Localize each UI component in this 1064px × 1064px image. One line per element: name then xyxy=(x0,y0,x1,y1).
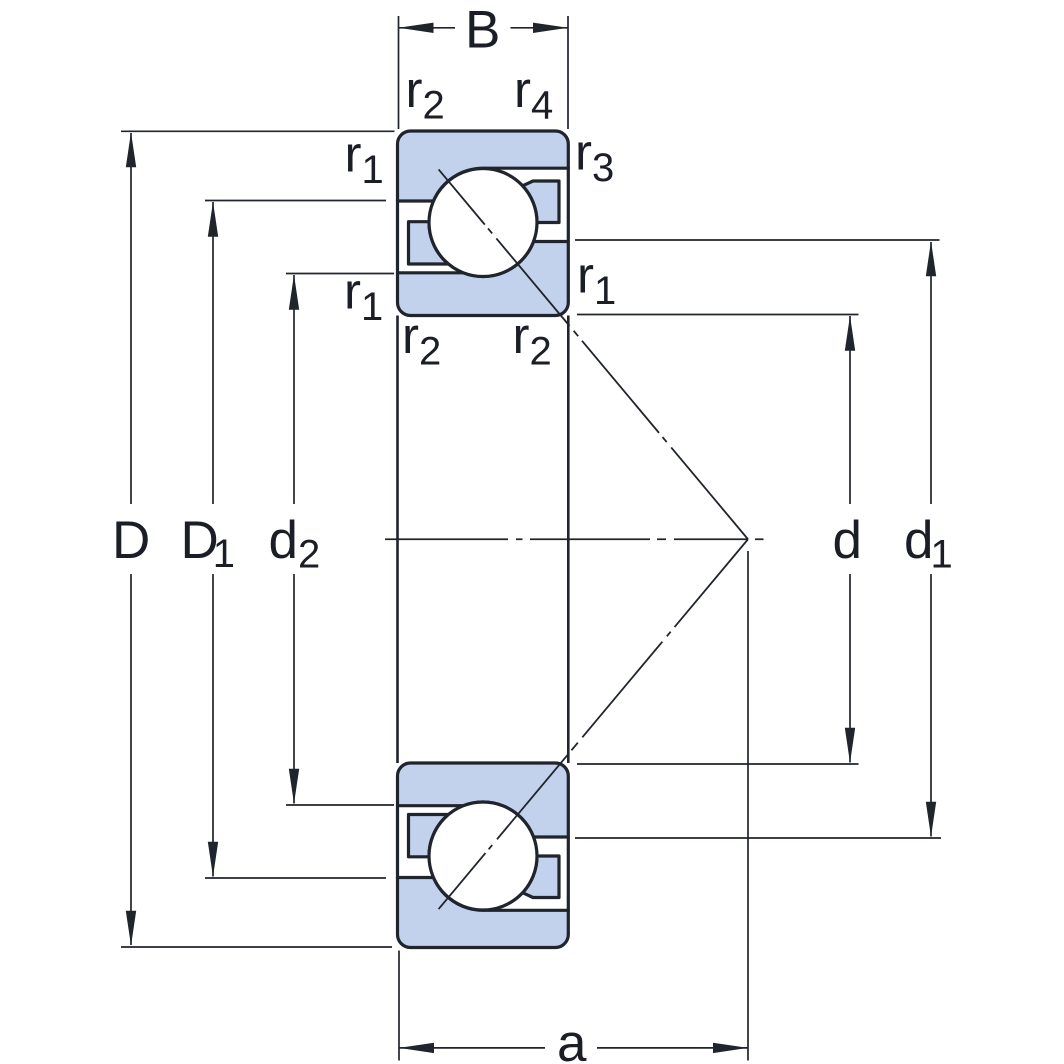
arrow d bottom xyxy=(845,728,855,763)
dimension B extension lines xyxy=(398,16,400,129)
dimension d2 line xyxy=(293,275,295,504)
bearing cross-section top half xyxy=(398,131,569,316)
arrow D bottom xyxy=(126,911,136,946)
svg-text:D: D xyxy=(112,511,150,570)
dimension d leaders xyxy=(577,314,859,316)
contact angle line upper xyxy=(439,169,748,539)
right face line (top section) xyxy=(567,167,570,242)
ball (top section) xyxy=(429,169,537,277)
dimension D1 line xyxy=(212,202,214,504)
inner ring right shoulder (top section) xyxy=(523,181,559,223)
arrow B right xyxy=(533,23,568,33)
arrow d1 top xyxy=(926,241,936,276)
arrow a left xyxy=(399,1043,434,1053)
dimension D line xyxy=(130,133,132,504)
inner ring body (top section) xyxy=(398,242,569,316)
bore silhouette line right xyxy=(567,316,570,764)
svg-text:d: d xyxy=(833,511,862,570)
arrow B left xyxy=(399,23,434,33)
inner ring left shoulder (top section) xyxy=(409,222,449,264)
arrow d2 bottom xyxy=(289,769,299,804)
dimension d1 leaders xyxy=(575,239,940,241)
dimension a line xyxy=(399,1047,545,1049)
dimension a extension lines xyxy=(398,951,400,1061)
dimension d2 leaders xyxy=(286,273,394,275)
arrow D1 bottom xyxy=(208,842,218,877)
arrowheads xyxy=(126,23,936,1054)
bearing cross-section bottom half (mirror) xyxy=(398,763,569,948)
arrow d2 top xyxy=(289,275,299,310)
dimension B line xyxy=(399,27,456,29)
svg-text:B: B xyxy=(465,1,500,60)
arrow a right xyxy=(713,1043,748,1053)
arrow D1 top xyxy=(208,202,218,237)
arrow d top xyxy=(845,316,855,351)
arrow D top xyxy=(126,132,136,167)
contact angle line lower xyxy=(439,539,748,909)
svg-text:a: a xyxy=(557,1014,587,1064)
dimension lines xyxy=(121,16,941,1061)
outer ring (top section) xyxy=(398,131,569,201)
arrow d1 bottom xyxy=(926,802,936,837)
dimension D leaders xyxy=(121,130,395,132)
dimension D1 leaders xyxy=(205,200,386,202)
dimension d1 line xyxy=(930,242,932,504)
left face line (top section) xyxy=(396,200,399,274)
bore silhouette line left xyxy=(396,316,399,764)
dimension d line xyxy=(849,316,851,504)
bearing axis centre line xyxy=(385,538,764,540)
